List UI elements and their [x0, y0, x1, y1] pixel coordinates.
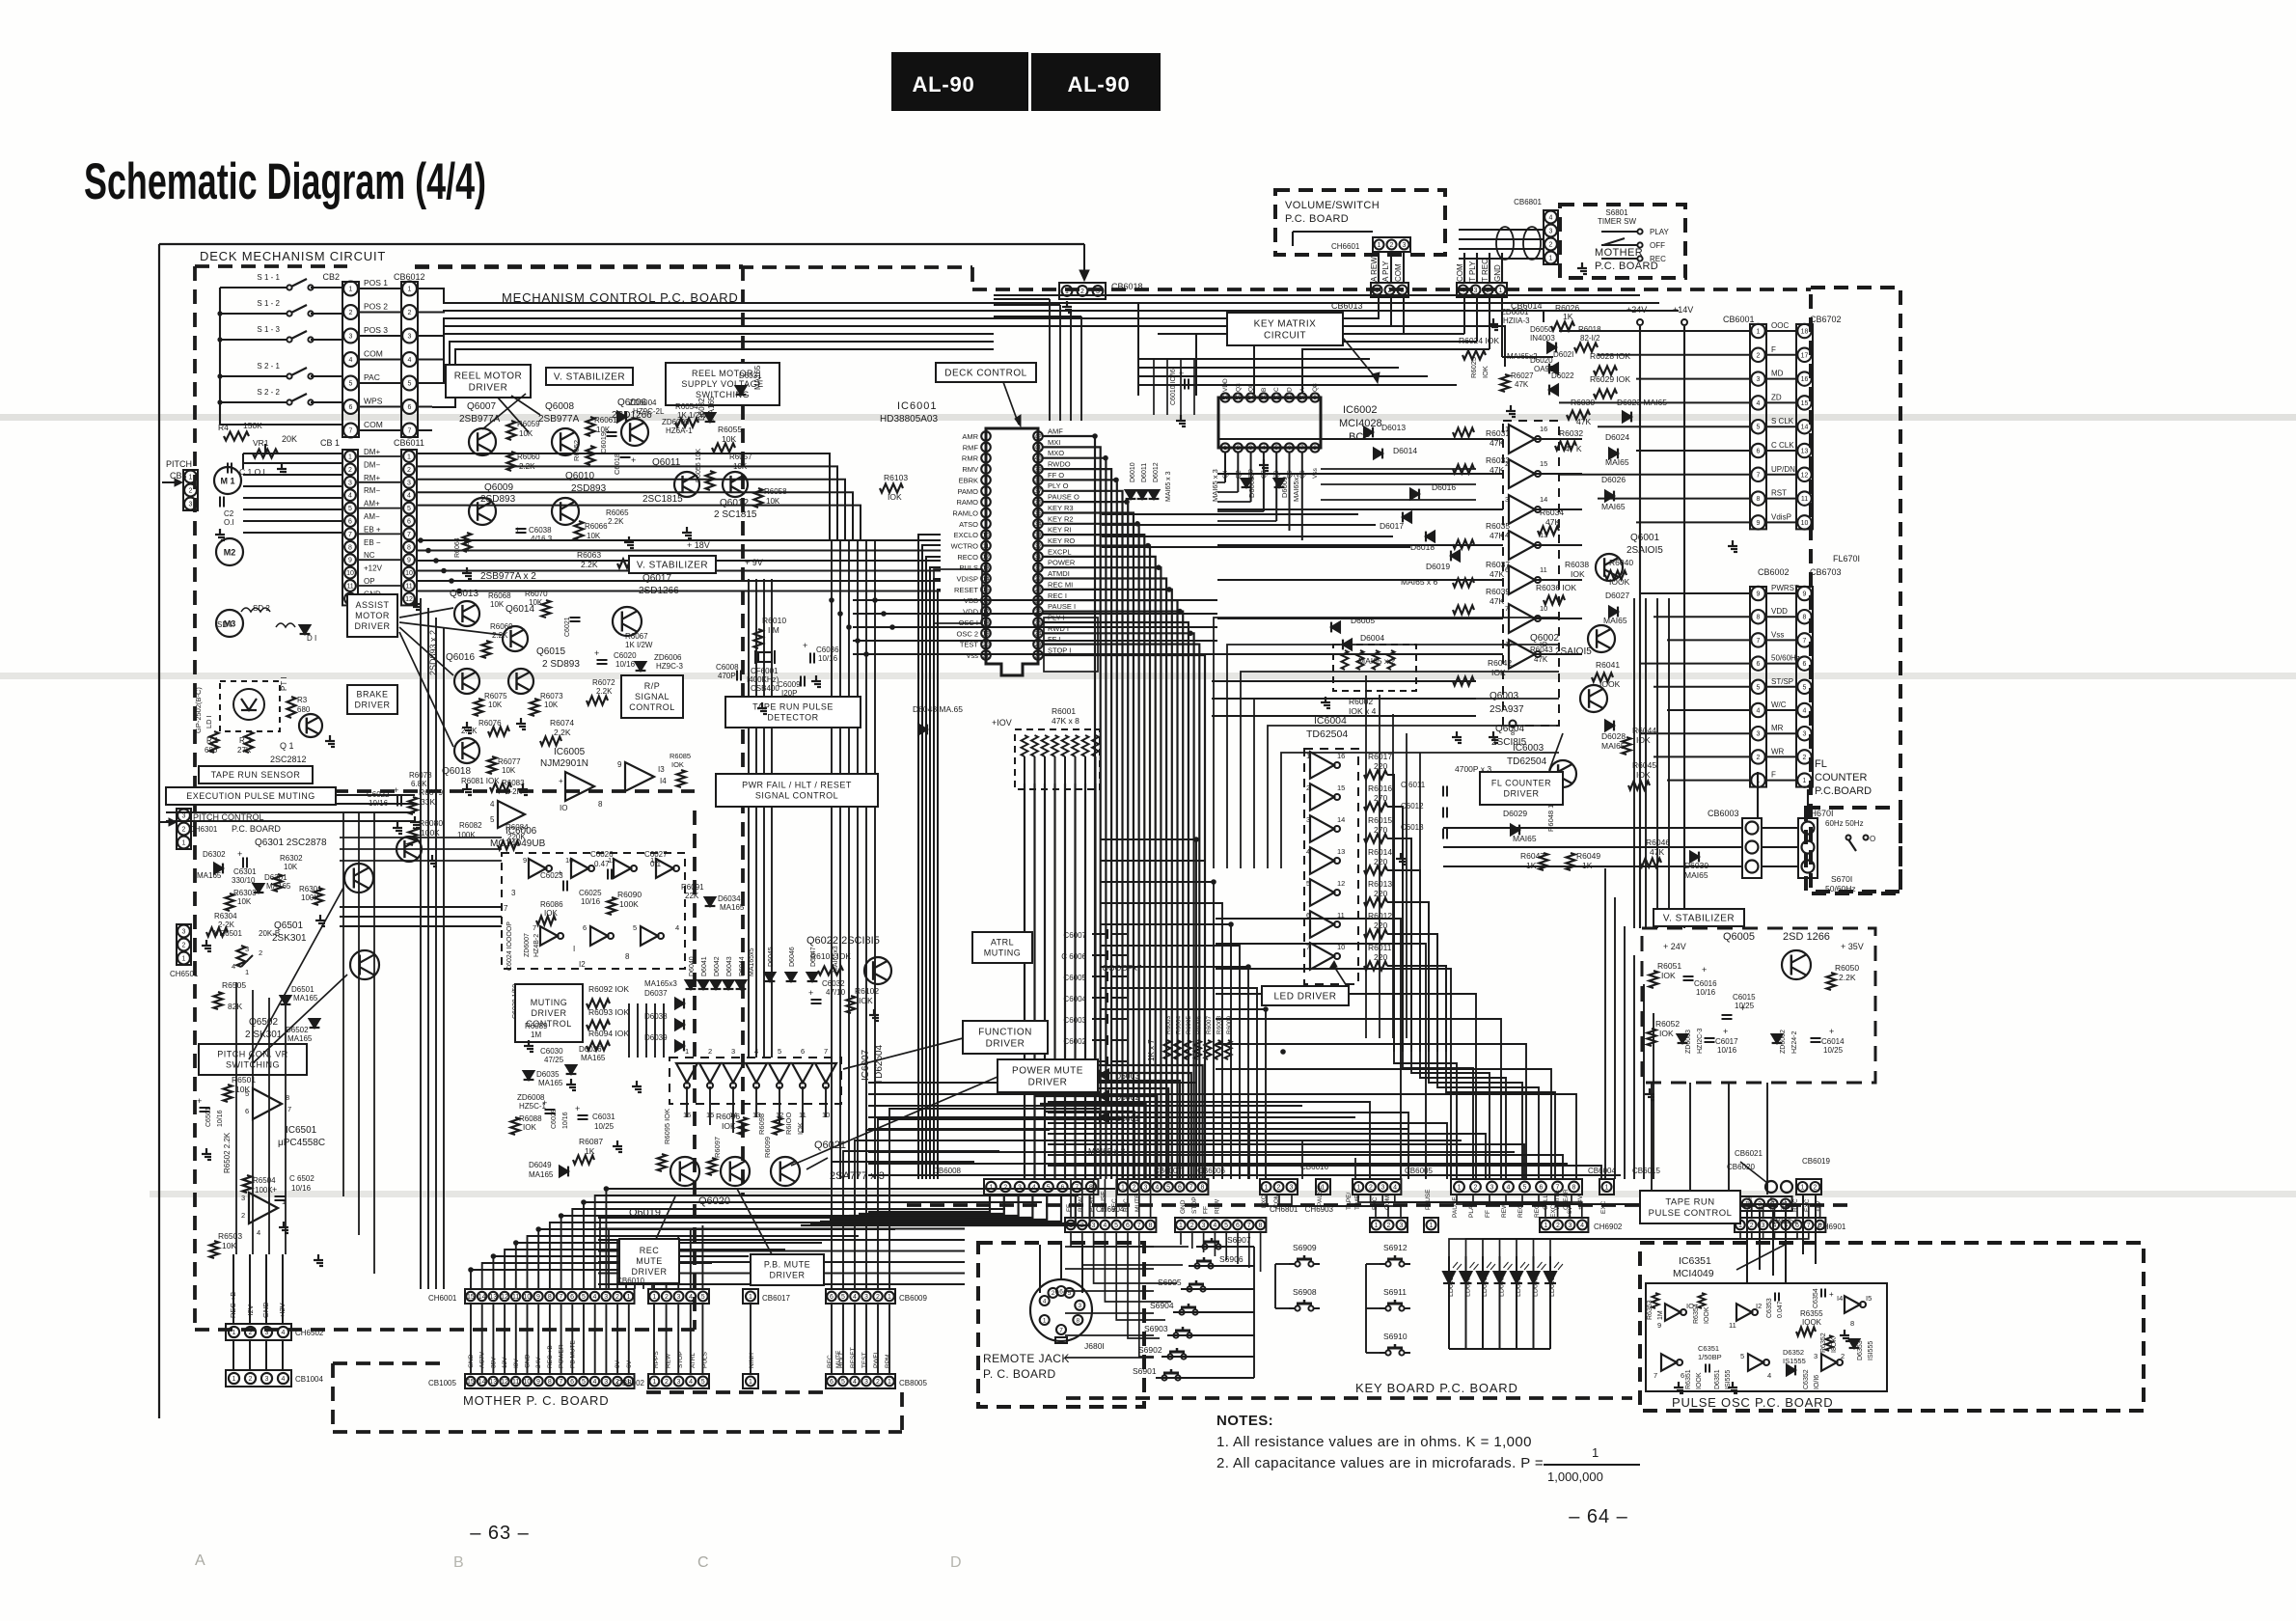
- svg-text:C6020: C6020: [614, 651, 637, 660]
- svg-text:4: 4: [232, 962, 235, 971]
- ground below C1: [281, 463, 283, 469]
- svg-text:Q6301 2SC2878: Q6301 2SC2878: [255, 838, 327, 848]
- svg-text:10/25: 10/25: [594, 1122, 615, 1131]
- transistor Q6020: [721, 1157, 750, 1186]
- svg-text:2: 2: [189, 488, 193, 495]
- svg-text:+12V: +12V: [364, 564, 383, 573]
- svg-text:4: 4: [1757, 708, 1761, 715]
- svg-text:S670I: S670I: [1831, 874, 1852, 884]
- svg-text:RESET: RESET: [954, 586, 978, 594]
- svg-text:Q2: Q2: [1235, 470, 1242, 479]
- svg-text:D6041: D6041: [701, 956, 708, 976]
- svg-text:IOK: IOK: [796, 1122, 805, 1135]
- svg-text:1K: 1K: [1563, 312, 1573, 321]
- svg-text:C6007: C6007: [1063, 931, 1086, 940]
- svg-text:1: 1: [348, 454, 352, 461]
- svg-text:COM: COM: [1394, 263, 1403, 282]
- svg-text:19: 19: [982, 631, 990, 638]
- svg-text:2SD1266: 2SD1266: [639, 586, 679, 596]
- wire bus: CB6006->CH6903 etc: [1266, 1195, 1279, 1218]
- svg-text:D6301: D6301: [264, 873, 287, 882]
- diode D6037: [675, 999, 684, 1009]
- diode D6013: [1364, 427, 1373, 438]
- svg-text:2: 2: [348, 467, 352, 474]
- svg-text:1: 1: [652, 1379, 656, 1386]
- svg-text:4: 4: [1043, 1298, 1047, 1305]
- svg-text:VdisP: VdisP: [1771, 512, 1791, 521]
- svg-text:8: 8: [1757, 496, 1761, 503]
- svg-text:R4: R4: [218, 423, 229, 432]
- svg-text:AL-90: AL-90: [1067, 72, 1130, 96]
- svg-text:A PLY: A PLY: [1381, 261, 1390, 282]
- svg-text:2: 2: [1814, 1185, 1818, 1192]
- svg-text:C6036: C6036: [816, 646, 839, 654]
- svg-text:MCI4028: MCI4028: [1339, 418, 1382, 429]
- svg-text:35: 35: [1034, 510, 1042, 517]
- motor M1: [214, 467, 241, 494]
- connector CB6008 8pin: [984, 1179, 1098, 1195]
- svg-text:S6801: S6801: [1605, 208, 1628, 217]
- label: reel motor supply voltage switching: [666, 363, 779, 405]
- svg-text:4: 4: [1155, 1185, 1159, 1192]
- svg-text:5: 5: [408, 381, 412, 388]
- svg-text:0.47: 0.47: [594, 860, 610, 868]
- svg-text:D: D: [950, 1554, 962, 1571]
- svg-text:CB1004: CB1004: [295, 1375, 323, 1384]
- svg-text:3: 3: [1490, 1185, 1494, 1192]
- svg-text:Q6022 2SCI8I5: Q6022 2SCI8I5: [806, 935, 880, 947]
- svg-text:REC: REC: [640, 1246, 660, 1255]
- svg-text:WPS: WPS: [364, 397, 383, 406]
- switch S2-2: [287, 399, 291, 404]
- svg-text:2SA777 x 3: 2SA777 x 3: [830, 1170, 885, 1182]
- svg-text:10: 10: [405, 570, 413, 577]
- svg-text:11: 11: [799, 1111, 806, 1119]
- label: rec mute driver: [619, 1239, 679, 1283]
- svg-text:R6027: R6027: [1511, 371, 1534, 380]
- svg-text:Q6007: Q6007: [467, 401, 496, 412]
- svg-text:Q4: Q4: [1222, 470, 1229, 479]
- svg-text:+: +: [631, 455, 636, 465]
- svg-text:MXO: MXO: [1048, 449, 1064, 457]
- svg-text:47K: 47K: [1650, 847, 1664, 857]
- svg-text:9: 9: [1803, 591, 1807, 598]
- svg-text:2: 2: [984, 445, 988, 452]
- svg-text:36: 36: [1034, 499, 1042, 506]
- svg-text:KEY MATRIX: KEY MATRIX: [1254, 319, 1317, 330]
- capacitor C6019: [607, 431, 617, 433]
- svg-text:C6017: C6017: [1715, 1037, 1738, 1046]
- svg-text:CH6901: CH6901: [1818, 1223, 1846, 1231]
- svg-text:R6086: R6086: [540, 900, 563, 909]
- svg-text:D6050: D6050: [1530, 325, 1553, 334]
- svg-text:8: 8: [407, 544, 411, 551]
- svg-text:CIRCUIT: CIRCUIT: [1264, 331, 1306, 342]
- svg-text:+: +: [1179, 369, 1184, 378]
- svg-text:R6001: R6001: [1052, 706, 1076, 716]
- svg-text:O: O: [1870, 835, 1875, 843]
- svg-text:RMF: RMF: [963, 443, 979, 452]
- wire bus: CB6009 risers: [832, 1162, 974, 1289]
- svg-text:1: 1: [1592, 1445, 1599, 1460]
- svg-text:4: 4: [593, 1379, 597, 1386]
- board outline: 50/60Hz select (dashed): [1806, 808, 1900, 893]
- svg-text:D6351: D6351: [1714, 1369, 1721, 1389]
- motor M2: [216, 538, 243, 565]
- svg-text:A: A: [195, 1552, 205, 1569]
- label: tape run sensor: [199, 766, 313, 783]
- svg-text:4: 4: [853, 1294, 857, 1301]
- svg-text:P.B. MUTE: P.B. MUTE: [764, 1260, 810, 1270]
- svg-text:2.2K: 2.2K: [581, 560, 598, 569]
- switch S6901: [1162, 1375, 1166, 1380]
- svg-text:9: 9: [536, 1294, 540, 1301]
- svg-text:470P: 470P: [718, 672, 736, 680]
- resistor R6060 2.2K: [507, 452, 516, 471]
- svg-text:R6029 IOK: R6029 IOK: [1590, 374, 1630, 384]
- resistor R1 680: [210, 731, 219, 753]
- svg-text:3: 3: [1381, 1185, 1385, 1192]
- svg-text:5: 5: [245, 1089, 249, 1098]
- svg-text:LD6907: LD6907: [1549, 1273, 1556, 1297]
- svg-text:PITCH: PITCH: [166, 459, 192, 469]
- arrow to CB6018: [1083, 244, 1085, 278]
- svg-text:10/16: 10/16: [217, 1110, 224, 1127]
- svg-text:7: 7: [560, 1379, 563, 1386]
- svg-text:1: 1: [1265, 1185, 1269, 1192]
- svg-text:C2: C2: [224, 509, 234, 518]
- svg-text:7: 7: [1807, 1223, 1811, 1229]
- inverter 14-15: [1845, 1296, 1860, 1313]
- svg-text:GND: GND: [1493, 264, 1502, 282]
- svg-text:R6304: R6304: [214, 912, 237, 920]
- wire bus: v.stab outputs down to connectors: [1651, 1083, 1653, 1195]
- svg-text:+ 18V: + 18V: [687, 540, 710, 550]
- svg-text:8: 8: [598, 800, 603, 809]
- inverter 9-10: [1665, 1304, 1681, 1321]
- wire cb6003-ch6701: [1762, 827, 1798, 829]
- svg-text:10K: 10K: [490, 600, 505, 609]
- svg-text:2: 2: [615, 1294, 619, 1301]
- svg-text:3: 3: [1549, 229, 1553, 235]
- svg-text:14: 14: [1337, 815, 1345, 824]
- svg-text:MA165: MA165: [720, 903, 745, 912]
- diodes D6003 D6002 D6001 MA165x3: [1100, 1070, 1108, 1081]
- svg-text:MA165: MA165: [529, 1170, 554, 1179]
- svg-text:+: +: [808, 988, 813, 998]
- svg-text:8: 8: [548, 1379, 552, 1386]
- wire bus: CB6012 to mechanism control (top): [417, 288, 432, 289]
- svg-text:IOK: IOK: [1659, 1029, 1674, 1038]
- svg-text:+: +: [1829, 1027, 1834, 1036]
- ground ic6003: [1492, 731, 1494, 737]
- label: tape run pulse control: [1640, 1191, 1740, 1223]
- wire bus: led driver outputs to CB6004: [1394, 1052, 1457, 1179]
- svg-text:0.047: 0.047: [1777, 1301, 1784, 1318]
- svg-text:R6009: R6009: [1226, 1015, 1233, 1034]
- svg-text:3: 3: [511, 889, 516, 897]
- svg-text:RWDO: RWDO: [1048, 460, 1071, 469]
- label: v.stabilizer (mid): [629, 556, 716, 573]
- svg-text:CALL: CALL: [1543, 1194, 1549, 1210]
- svg-text:1: 1: [1069, 1223, 1073, 1229]
- wire bus: nested diagonal to bottom-right connectors: [1216, 919, 1401, 1179]
- svg-text:SIGNAL: SIGNAL: [635, 692, 670, 701]
- connector 1pin CB8002-right: [743, 1374, 758, 1388]
- svg-text:+: +: [594, 648, 599, 658]
- svg-text:10K: 10K: [733, 462, 748, 471]
- svg-text:RST: RST: [1771, 489, 1787, 498]
- svg-text:DM+: DM+: [364, 448, 380, 456]
- model label box AL-90 (right): [1031, 53, 1161, 111]
- svg-text:DM−: DM−: [364, 460, 380, 469]
- svg-text:R6032: R6032: [1559, 428, 1583, 438]
- connector CB6017 1pin: [743, 1289, 758, 1304]
- svg-text:IC6351: IC6351: [1679, 1255, 1711, 1267]
- svg-text:D6043: D6043: [726, 956, 733, 976]
- svg-text:REC: REC: [1534, 1204, 1541, 1218]
- svg-text:2SC1815: 2SC1815: [642, 494, 683, 505]
- svg-text:WCTRO: WCTRO: [951, 542, 978, 551]
- svg-text:C6016: C6016: [1694, 979, 1717, 988]
- svg-text:RAMLO: RAMLO: [952, 509, 978, 518]
- svg-text:D6302: D6302: [203, 850, 226, 859]
- svg-text:M 1: M 1: [220, 477, 234, 486]
- svg-text:CB6001: CB6001: [1723, 315, 1755, 324]
- svg-text:3: 3: [984, 455, 988, 462]
- svg-text:13: 13: [1337, 847, 1345, 856]
- svg-text:1: 1: [1549, 256, 1553, 262]
- svg-text:Q6019: Q6019: [629, 1207, 661, 1219]
- svg-text:D6017: D6017: [1380, 521, 1404, 531]
- wire CB6002-CB6703 rows: [1766, 592, 1796, 594]
- svg-text:FF: FF: [1203, 1206, 1210, 1214]
- svg-text:1K: 1K: [1526, 861, 1537, 870]
- svg-text:3: 3: [1306, 815, 1310, 824]
- svg-text:CB6002: CB6002: [1758, 567, 1790, 577]
- svg-text:30: 30: [1034, 565, 1042, 572]
- svg-text:MAI65 x 3: MAI65 x 3: [1088, 1146, 1126, 1156]
- svg-text:QI: QI: [1248, 385, 1255, 392]
- svg-text:2: 2: [1369, 1185, 1373, 1192]
- svg-text:C6029: C6029: [551, 1109, 558, 1129]
- svg-text:12: 12: [405, 596, 413, 603]
- svg-text:6: 6: [801, 1047, 805, 1056]
- svg-text:PAUSE O: PAUSE O: [1048, 493, 1080, 502]
- svg-text:D6029: D6029: [1503, 809, 1527, 818]
- svg-text:R6051: R6051: [1657, 961, 1681, 971]
- svg-text:2SAIOI5: 2SAIOI5: [1626, 545, 1663, 556]
- svg-text:R6085: R6085: [670, 752, 691, 760]
- svg-text:LD6903: LD6903: [1482, 1273, 1489, 1297]
- svg-text:PAUSE I: PAUSE I: [1048, 602, 1076, 611]
- svg-text:R6102: R6102: [855, 986, 879, 996]
- svg-text:11: 11: [405, 584, 412, 591]
- svg-text:MA165: MA165: [287, 1034, 313, 1043]
- svg-text:R6098: R6098: [757, 1113, 766, 1135]
- wires into remote jack: [1060, 1245, 1062, 1279]
- wire bus: atrl/power-mute long lines: [1048, 1102, 1370, 1179]
- diode D6031 MA165: [736, 386, 747, 395]
- svg-text:2: 2: [1757, 352, 1761, 359]
- label: pwr fail/hlt/reset signal control: [716, 774, 878, 807]
- ic IC6003 TD62504 inverter column: [1503, 421, 1559, 726]
- wire bus: CH6904 risers: [1070, 1179, 1072, 1218]
- svg-text:9: 9: [348, 558, 352, 564]
- svg-text:C6003: C6003: [1063, 1016, 1086, 1025]
- ground pitch2: [205, 1148, 207, 1154]
- label: execution pulse muting: [166, 787, 336, 805]
- svg-text:R6082: R6082: [459, 821, 482, 830]
- ground below CB6018: [1066, 301, 1068, 307]
- svg-text:20K: 20K: [282, 434, 297, 444]
- svg-text:R6504: R6504: [253, 1176, 276, 1185]
- svg-text:6: 6: [1505, 565, 1509, 574]
- wire bus: q-transistor outputs to CB strip verticals: [1633, 598, 1635, 928]
- svg-text:1K: 1K: [585, 1146, 595, 1156]
- svg-text:PLAY: PLAY: [1650, 228, 1670, 236]
- svg-text:7: 7: [1059, 1327, 1063, 1333]
- wire CH6601 to CB6013: [1378, 252, 1380, 283]
- svg-text:PT I: PT I: [280, 676, 288, 691]
- svg-text:1: 1: [1801, 1185, 1805, 1192]
- svg-text:3: 3: [1018, 1185, 1022, 1192]
- svg-text:2: 2: [407, 467, 411, 474]
- svg-text:MAI65 x 3: MAI65 x 3: [1211, 469, 1219, 502]
- svg-text:C: C: [697, 1554, 709, 1571]
- svg-text:16: 16: [982, 598, 990, 605]
- svg-text:+: +: [1723, 1027, 1728, 1036]
- svg-text:MA165: MA165: [293, 994, 318, 1003]
- svg-text:5: 5: [582, 1294, 586, 1301]
- svg-text:LD6901: LD6901: [1448, 1273, 1455, 1297]
- wire bus: verticals from R6001 bank down: [1024, 783, 1025, 1179]
- svg-text:LD6906: LD6906: [1533, 1273, 1540, 1297]
- svg-text:+IOV: +IOV: [992, 718, 1012, 728]
- svg-text:+: +: [1740, 1003, 1745, 1013]
- ground vstab: [1649, 1088, 1651, 1094]
- svg-text:MA165: MA165: [707, 396, 716, 421]
- svg-text:REC MI: REC MI: [1048, 580, 1073, 589]
- svg-text:4: 4: [1580, 1223, 1584, 1229]
- svg-text:12: 12: [501, 1379, 508, 1386]
- svg-text:20K-B: 20K-B: [259, 929, 280, 938]
- svg-text:CB6008: CB6008: [933, 1167, 961, 1175]
- svg-text:IOK: IOK: [722, 1121, 736, 1131]
- label: reel motor driver: [446, 365, 531, 398]
- svg-text:D6024: D6024: [1605, 432, 1629, 442]
- wire bus: top lines to right section: [994, 303, 1138, 380]
- wire bus: CB6013/CB6014 into board: [1138, 297, 1379, 318]
- svg-text:3: 3: [182, 929, 186, 936]
- svg-text:5: 5: [407, 506, 411, 512]
- svg-text:2: 2: [1841, 1352, 1845, 1360]
- svg-text:RWD I: RWD I: [1048, 624, 1069, 633]
- wire bus: IC6002 to FL area horizontals: [1321, 468, 1476, 470]
- svg-text:T PLY: T PLY: [1468, 261, 1477, 282]
- switch S6909: [1295, 1261, 1299, 1266]
- wire bus: CB6018 down to deck control: [1049, 299, 1051, 421]
- svg-text:21: 21: [982, 652, 990, 659]
- svg-text:B: B: [453, 1554, 464, 1571]
- wire bus: horizontal distribution above bottom connectors: [868, 1082, 1196, 1084]
- svg-text:2SD893 x 2: 2SD893 x 2: [428, 630, 438, 675]
- svg-text:ZD6008: ZD6008: [517, 1093, 545, 1102]
- svg-text:+6V: +6V: [1567, 1206, 1573, 1218]
- svg-text:D6026: D6026: [1601, 475, 1626, 484]
- svg-text:I2: I2: [1756, 1302, 1762, 1310]
- svg-text:7: 7: [349, 428, 353, 435]
- svg-text:PAUSE: PAUSE: [1452, 1196, 1459, 1218]
- svg-text:1: 1: [1757, 329, 1761, 336]
- svg-text:OFF: OFF: [1650, 241, 1665, 250]
- svg-text:C6352: C6352: [1803, 1369, 1810, 1389]
- svg-text:47K: 47K: [1515, 380, 1529, 389]
- svg-text:D: D: [1287, 387, 1294, 392]
- svg-text:+ 35V: + 35V: [1841, 942, 1864, 951]
- wire bus: keyboard rail extensions: [1065, 1246, 1154, 1248]
- label: FL counter driver: [1480, 772, 1563, 805]
- svg-text:S6907: S6907: [1227, 1235, 1251, 1245]
- svg-text:150K: 150K: [243, 421, 262, 430]
- svg-text:REC I: REC I: [1048, 591, 1067, 600]
- svg-text:15: 15: [467, 1294, 475, 1301]
- svg-text:4: 4: [257, 1228, 260, 1237]
- svg-text:10K: 10K: [722, 434, 736, 444]
- label: p.b. mute driver: [751, 1254, 824, 1285]
- svg-text:DRIVER: DRIVER: [986, 1039, 1025, 1050]
- svg-text:M2: M2: [224, 548, 236, 558]
- svg-text:MCI4049: MCI4049: [1673, 1268, 1714, 1279]
- svg-text:I4: I4: [660, 777, 667, 785]
- svg-text:R 2: R 2: [239, 736, 252, 745]
- svg-text:5: 5: [582, 1379, 586, 1386]
- wires cb6019 to pulse: [1802, 1195, 1804, 1254]
- svg-text:PLY O: PLY O: [1048, 481, 1069, 490]
- svg-text:REC: REC: [1123, 1198, 1130, 1212]
- svg-text:Q6016: Q6016: [446, 652, 475, 663]
- svg-text:11: 11: [1286, 396, 1293, 401]
- svg-text:2: 2: [1556, 1223, 1560, 1229]
- svg-text:15: 15: [467, 1379, 475, 1386]
- svg-text:– 64 –: – 64 –: [1569, 1506, 1628, 1527]
- svg-text:R6028 IOK: R6028 IOK: [1590, 351, 1630, 361]
- svg-text:2: 2: [259, 948, 262, 957]
- svg-text:2.2K: 2.2K: [519, 462, 535, 471]
- svg-text:Q3: Q3: [1235, 383, 1242, 392]
- svg-text:82K: 82K: [228, 1002, 242, 1011]
- svg-text:A: A: [1299, 387, 1306, 392]
- svg-text:2: 2: [665, 1379, 669, 1386]
- svg-text:1: 1: [1745, 1201, 1749, 1208]
- inverter 11-12: [1736, 1304, 1752, 1321]
- svg-text:3: 3: [1144, 1185, 1148, 1192]
- svg-text:KEY RO: KEY RO: [1048, 536, 1075, 545]
- svg-text:CB6016: CB6016: [1300, 1163, 1328, 1171]
- svg-text:MAI65: MAI65: [1601, 502, 1626, 511]
- svg-text:R6039: R6039: [1486, 587, 1510, 596]
- svg-text:4: 4: [349, 357, 353, 364]
- svg-text:4: 4: [1549, 215, 1553, 222]
- transistor Q6018: [454, 738, 479, 763]
- svg-text:15: 15: [1540, 459, 1547, 468]
- svg-text:8: 8: [1149, 1223, 1153, 1229]
- svg-text:PAUSE: PAUSE: [1317, 1185, 1324, 1206]
- svg-text:5: 5: [1224, 1223, 1228, 1229]
- svg-text:R6010: R6010: [762, 616, 786, 625]
- svg-text:4: 4: [853, 1379, 857, 1386]
- switch S6911: [1385, 1305, 1390, 1310]
